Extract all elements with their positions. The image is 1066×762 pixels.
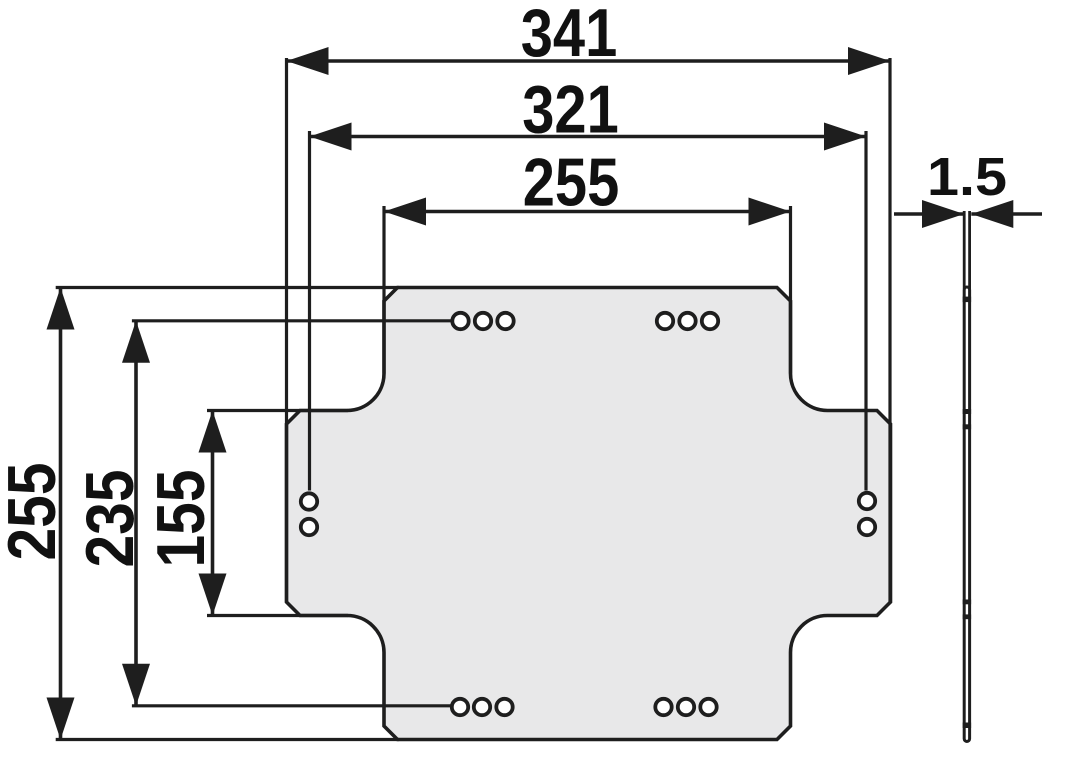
hole right side lower (859, 519, 875, 535)
hole bottom-left 1 (452, 699, 468, 715)
hole top-left 3 (497, 313, 513, 329)
arrow 321 right (824, 123, 866, 151)
svg-text:1.5: 1.5 (927, 147, 1007, 207)
hole bottom-left 2 (474, 699, 490, 715)
hole bottom-left 3 (496, 699, 512, 715)
svg-text:235: 235 (72, 470, 148, 568)
arrow 255left bottom (47, 698, 75, 740)
side view edge tick 3a (963, 600, 971, 605)
svg-text:321: 321 (522, 72, 619, 148)
hole left side lower (301, 519, 317, 535)
dimension line 341 (287, 59, 891, 63)
hole right side upper (859, 493, 875, 509)
extension line 255 top-dim left (382, 206, 385, 374)
arrow 1.5 left (points right) (922, 200, 964, 228)
arrow 255top right (749, 198, 791, 226)
hole top-left 2 (475, 313, 491, 329)
extension line middle top edge (155 dim) (207, 409, 348, 412)
dimension line 235 (134, 321, 138, 706)
side view plate (thickness) (964, 287, 969, 742)
extension line 341 left (285, 58, 288, 602)
arrow 235 bottom (122, 664, 150, 706)
arrow 341 right (848, 47, 890, 75)
extension line top edge (255 vertical dim) (56, 286, 399, 289)
hole bottom-right 2 (678, 699, 694, 715)
extension line bottom hole row (235 dim) (132, 704, 452, 707)
arrow 155 top (199, 411, 227, 453)
hole left side upper (301, 493, 317, 509)
arrow 255left top (47, 288, 75, 330)
dimension line 321 (310, 135, 867, 139)
dimension line 1.5 left tail (894, 212, 964, 215)
svg-text:255: 255 (0, 463, 70, 561)
arrow 255top left (384, 198, 426, 226)
side view edge tick 1 (963, 297, 971, 303)
extension line bottom edge (255 vertical dim) (56, 738, 399, 741)
side view edge tick 3b (963, 614, 971, 619)
extension line 341 right (888, 58, 891, 602)
arrow 341 left (287, 47, 329, 75)
extension line side-view right face (968, 211, 971, 289)
extension line middle bottom edge (155 dim) (207, 614, 348, 617)
extension line top hole row (235 dim) (132, 319, 452, 322)
extension line side-view left face (963, 211, 966, 289)
plate front view outline (287, 288, 891, 740)
side view edge tick 4 (963, 723, 971, 729)
dimension line 155 (211, 411, 215, 616)
side view edge tick 2a (963, 409, 971, 414)
hole top-right 2 (679, 313, 695, 329)
hole top-right 1 (657, 313, 673, 329)
svg-text:341: 341 (521, 0, 618, 71)
extension line 321 right (864, 131, 867, 491)
hole top-left 1 (452, 313, 468, 329)
dimension line 1.5 right tail (971, 212, 1042, 215)
arrow 321 left (310, 123, 352, 151)
hole bottom-right 3 (700, 699, 716, 715)
svg-text:155: 155 (143, 470, 219, 568)
arrow 1.5 right (points left) (971, 200, 1013, 228)
dimension line 255 top (384, 210, 791, 214)
hole bottom-right 1 (655, 699, 671, 715)
arrow 235 top (122, 321, 150, 363)
extension line 321 left (308, 131, 311, 491)
svg-text:255: 255 (523, 145, 620, 221)
dimension line 255 left vertical (59, 288, 63, 740)
extension line 255 top-dim right (789, 206, 792, 374)
hole top-right 3 (702, 313, 718, 329)
side view edge tick 2b (963, 424, 971, 429)
arrow 155 bottom (199, 574, 227, 616)
